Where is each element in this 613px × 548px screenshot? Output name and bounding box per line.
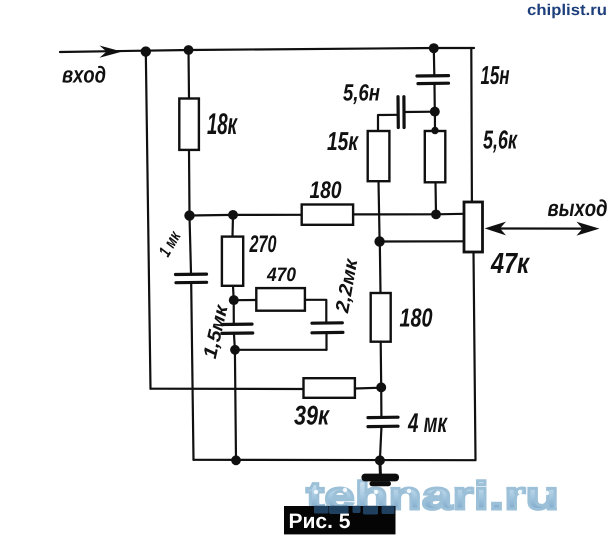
label chiplist.ru [528,4,606,18]
label 270 [249,235,276,252]
wire mid rail right segment to potentiometer [353,213,464,216]
wire bottom rail [194,459,476,462]
wire bottom-left to 39k [151,388,304,390]
resistor 470 [256,288,305,311]
output arrowhead right [577,222,600,236]
node 270 top junction [228,210,238,220]
wire input node to 18k [187,50,190,99]
resistor 18к [179,99,199,150]
wire node E to potentiometer [380,240,464,242]
wire output wiper line [490,227,591,229]
wire right rail top to pot [470,48,473,202]
capacitor 1мк [176,274,207,283]
wire 39k to node F [355,387,381,390]
capacitor 1,5мк [222,324,253,333]
label 1 мк [160,231,181,258]
capacitor 4мк [368,417,398,426]
wire 2.2uF to loop bottom [325,334,327,350]
wire mid-left node to 1uF cap [190,216,192,274]
wire loop bottom [235,349,327,351]
node mid-left junction [184,210,194,220]
wire 1.5uF to node C [233,335,236,350]
node B junction [229,295,239,305]
wire 4uF cap to bottom rail [380,428,382,460]
wiper arrowhead left [485,222,506,236]
resistor 180 vertical [371,293,391,342]
wire node B to 1.5uF [233,300,235,323]
label 180 right [400,308,433,327]
label 470 [267,267,296,281]
node C junction [230,345,240,355]
resistor 270 [222,237,243,286]
label 1,5мк [204,304,227,359]
resistor 15к [368,131,390,181]
label выход [548,199,607,216]
wire node C down to bottom rail [235,350,236,460]
label 47к [491,253,530,273]
wire node B to 470 [234,299,257,301]
wire node D to 5.6n cap [405,111,435,114]
wire ground stub [378,460,382,474]
node top right junction [429,43,439,53]
label вход [62,66,105,83]
node bottom-right junction [375,455,385,465]
wire 15k down to node E [379,181,380,241]
wire top rail to 15n cap [433,48,436,75]
wire node to 270 resistor [231,215,234,237]
label 2,2мк [336,258,357,314]
label 15к [327,132,359,150]
wire pot bottom to bottom rail [474,252,476,460]
label 5,6н [343,84,379,104]
node 18k top junction [184,45,194,55]
wire 470 right to 2.2uF [305,300,326,322]
wire 270 to node B [232,286,235,300]
label 4 мк [408,413,448,432]
label 180 top [310,181,342,198]
resistor 180 horizontal [302,205,353,225]
resistor 5,6к [425,131,446,182]
capacitor 15н [417,76,449,84]
capacitor 5,6н [398,97,404,128]
node 5,6k top junction [431,127,438,134]
wire 15n cap to node D [433,85,435,112]
wire 5.6n cap to 15k [378,115,398,131]
label 5,6к [483,130,518,152]
label 18к [207,113,238,134]
wire node D to 5.6k [434,112,436,131]
node bottom-left junction [231,455,241,465]
node E junction [374,236,384,246]
wire mid rail left segment [190,214,302,217]
wire left vertical from input node [146,52,151,389]
watermark letters over black box [314,506,395,515]
wire top input rail [60,48,474,52]
potentiometer 47к [464,202,483,252]
watermark tehnari.ru [307,481,556,510]
wire node F to 4uF cap [380,388,382,417]
ground [362,474,400,487]
wire 18k to mid-left node [188,150,191,216]
label 15н [481,66,509,84]
capacitor 2,2мк [312,323,343,333]
node mid-right junction [431,210,441,220]
wire 180 vertical to node F [380,342,383,388]
node input junction [141,46,151,56]
wire 1uF cap down to bottom rail [191,284,193,460]
node F junction [376,382,386,392]
input arrowhead [100,46,123,58]
resistor 39к [304,378,355,398]
label 39к [294,406,330,425]
label Рис. 5 [284,506,396,535]
node D junction [430,107,440,117]
wire 5.6k down to mid rail [434,182,437,214]
wire node E to 180 vertical [379,242,382,294]
